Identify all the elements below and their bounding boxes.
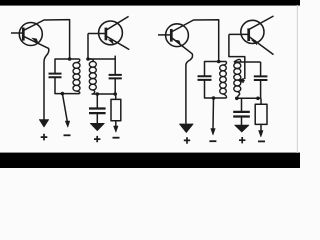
transistor Q4 circle xyxy=(241,20,264,43)
inductor L4 coil xyxy=(234,59,241,98)
capacitor C6 lead xyxy=(241,98,243,111)
capacitor C3 bottom lead xyxy=(96,114,98,124)
battery terminal arrow (+) under Q1 emitter xyxy=(39,120,48,127)
node: junction dot tankB bottom left xyxy=(235,97,239,101)
capacitor C4 plates xyxy=(198,76,212,80)
node: junction dot C3 tap xyxy=(96,92,100,96)
minus sign terminal 2 xyxy=(113,137,120,139)
inductor L2 coil xyxy=(88,59,96,94)
node: junction dot base/tank2 xyxy=(86,57,90,61)
battery terminal arrow (+) under C6 xyxy=(235,125,249,132)
capacitor C3 lead xyxy=(96,94,98,108)
transistor Q2 circle xyxy=(99,21,123,45)
wire: Q2 base down to tank2 top xyxy=(87,34,89,60)
transistor Q1 base lead xyxy=(11,32,23,34)
capacitor C6 plates xyxy=(233,112,250,117)
node: junction dot collector/tankA xyxy=(217,60,221,64)
minus sign terminal 1 xyxy=(64,134,71,136)
transistor Q1 emitter lead xyxy=(24,37,49,120)
plus sign terminal 2 xyxy=(94,136,100,142)
node: junction dot tankA bottom xyxy=(212,96,216,100)
node: junction dot tank1 bottom xyxy=(61,92,65,96)
node: junction dot tankB bottom right xyxy=(256,97,260,101)
small arrow terminal (-) under R2 xyxy=(259,131,263,137)
transistor Q1 base bar xyxy=(22,28,25,41)
inductor L3 coil xyxy=(220,62,227,99)
capacitor C1 plates xyxy=(49,74,62,78)
plus sign terminal 4 xyxy=(239,137,245,143)
resistor R1 lead top xyxy=(115,94,117,99)
transistor Q2 base bar xyxy=(105,28,108,41)
top letterbox bar xyxy=(0,0,300,5)
small arrow terminal (-) xyxy=(65,121,69,127)
transistor Q2 base lead xyxy=(88,33,105,35)
capacitor C5 plates xyxy=(254,76,268,80)
tank B right branch upper xyxy=(260,62,262,76)
resistor R1 lead bottom xyxy=(115,121,117,127)
tank 2 top wire xyxy=(88,58,115,60)
transistor Q1 emitter arrow (PNP) xyxy=(32,38,38,44)
transistor Q2 collector lead xyxy=(107,16,129,29)
battery terminal arrow (+) under Q3 emitter xyxy=(180,124,194,133)
small arrow terminal (-) tankA xyxy=(211,129,215,135)
transistor Q2 emitter arrow (PNP) xyxy=(108,40,113,45)
tank B right branch lower xyxy=(260,80,262,98)
transistor Q4 emitter arrow (PNP) xyxy=(251,40,257,45)
tank B bottom wire xyxy=(237,97,261,99)
small arrow terminal (-) under R1 xyxy=(114,126,118,132)
tank 2 right branch upper xyxy=(114,56,116,75)
resistor R2 body xyxy=(255,104,267,124)
transistor Q4 collector lead xyxy=(249,16,273,29)
transistor Q4 emitter lead xyxy=(249,37,273,55)
resistor R2 lead top xyxy=(260,98,262,104)
minus sign terminal 3 xyxy=(209,140,216,142)
tank 2 bottom wire xyxy=(92,93,116,95)
transistor Q3 emitter lead xyxy=(172,38,193,124)
wire: tankA bottom to minus terminal xyxy=(212,98,215,129)
transistor Q3 emitter arrow (PNP) xyxy=(175,40,181,45)
transistor Q1 collector lead + wire to tank1 top xyxy=(24,20,70,59)
tank B top wire xyxy=(234,61,261,63)
wire: Q4 base jog down to coil tap xyxy=(229,34,245,79)
node: junction dot collector/tank1 xyxy=(68,57,72,61)
wire: C4 bottom to tankA bottom xyxy=(205,80,227,98)
transistor Q2 emitter lead xyxy=(107,36,130,49)
tank A top wire xyxy=(205,62,227,77)
plus sign terminal 1 xyxy=(41,134,48,141)
transistor Q3 circle xyxy=(166,24,189,47)
inductor L1 coil xyxy=(73,59,80,94)
transistor Q4 base bar xyxy=(247,28,250,41)
capacitor C2 plates xyxy=(109,75,122,79)
wire: C1 bottom to tank1 bottom xyxy=(55,78,80,94)
battery terminal arrow (+) under C3 xyxy=(90,123,104,130)
transistor Q1 circle xyxy=(19,23,42,46)
minus sign terminal 4 xyxy=(258,140,265,142)
wire: tank1 bottom to minus terminal xyxy=(62,94,67,122)
tank 2 right branch lower xyxy=(114,79,116,94)
bottom letterbox bar xyxy=(0,153,300,168)
node: junction dot R1 top xyxy=(113,92,117,96)
resistor R2 lead bottom xyxy=(260,124,262,131)
plus sign terminal 3 xyxy=(184,137,190,144)
transistor Q4 base lead xyxy=(229,33,248,35)
capacitor C6 bottom lead xyxy=(241,117,243,125)
transistor Q3 base lead xyxy=(158,34,170,36)
tank 1 top wire xyxy=(55,59,80,73)
resistor R1 body xyxy=(111,99,121,120)
paper background xyxy=(0,0,300,168)
transistor Q3 base bar xyxy=(170,29,173,42)
coil tap arrow into L4 xyxy=(242,80,245,82)
capacitor C3 plates xyxy=(89,109,106,114)
transistor Q3 collector lead + wire to tankA top xyxy=(172,20,219,62)
